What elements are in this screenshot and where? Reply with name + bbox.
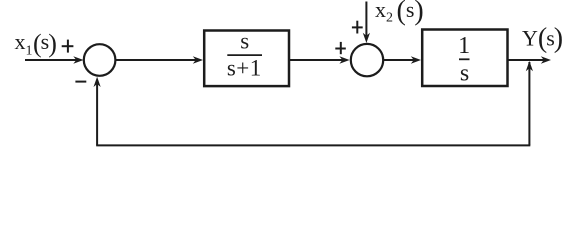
svg-text:Y(s): Y(s) [522,23,563,54]
wire feedback into S1 [94,77,101,146]
svg-text:x1(s): x1(s) [15,29,57,59]
sign + at S2 top [352,21,363,34]
wire G1 to S2 [290,56,350,63]
summing junction S1 [84,44,116,76]
block G2 1/s [422,30,507,87]
wire feedback tap with up arrow [526,61,533,145]
wire feedback bottom [96,144,530,146]
block G1 s/(s+1) [204,29,289,87]
svg-text:s: s [460,61,469,87]
wire x2 into S2 [363,2,370,44]
summing junction S2 [351,44,383,76]
svg-text:s+1: s+1 [227,55,262,80]
wire output [508,56,551,63]
wire S2 to G2 [384,56,422,63]
svg-text:x2(s): x2(s) [375,0,424,27]
wire input to S1 [25,56,84,63]
sign + at S1 input [62,40,74,53]
svg-text:1: 1 [458,33,470,59]
svg-text:s: s [240,29,249,54]
sign minus at S1 feedback [75,81,86,83]
sign + at S2 left [335,42,346,54]
wire S1 to G1 [116,56,204,63]
